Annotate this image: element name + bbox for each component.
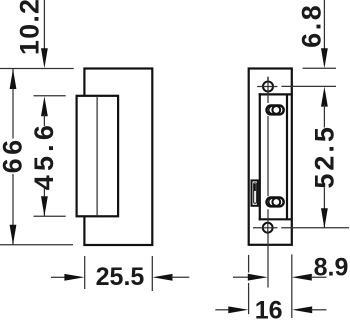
svg-text:6.8: 6.8 — [297, 3, 327, 48]
svg-text:16: 16 — [255, 296, 283, 321]
dimension 66 line — [12, 69, 14, 139]
bottom hole vertical cross — [267, 222, 269, 235]
extension line top (plate top, y=68.5) — [0, 68, 74, 70]
dimension 45.6 line — [43, 114, 45, 126]
dimension 8.9 left arrow — [233, 276, 248, 278]
svg-text:10.2: 10.2 — [15, 0, 45, 55]
vertical centerline through holes — [267, 77, 269, 103]
dimension 6.8 leader line — [323, 0, 325, 50]
dimension 25.5 left arrow — [51, 276, 66, 278]
dimension 16/8.9 left extension line (x=248.6) — [248, 255, 250, 273]
top obround roller circle — [272, 106, 280, 114]
svg-text:45.6: 45.6 — [29, 121, 59, 190]
dimension 52.5 line — [323, 105, 325, 128]
adjustment tab slot — [254, 183, 257, 203]
bottom hole horizontal cross — [253, 227, 278, 229]
extension line plate bottom (y=244.8) — [0, 244, 73, 246]
dimension 16 left arrow — [215, 309, 228, 311]
left view pocket divider line — [96, 96, 98, 217]
svg-text:52.5: 52.5 — [309, 124, 339, 189]
bottom screw hole — [263, 223, 273, 233]
dimension 25.5 right arrow — [153, 274, 173, 281]
dimension 10.2 leader line — [43, 0, 45, 50]
right view outer faceplate — [249, 69, 292, 245]
dimension 45.6 top arrow (also 10.2 counter-arrow) — [41, 96, 48, 116]
bottom obround roller circle — [272, 198, 280, 206]
right view recessed box left edge — [259, 93, 261, 220]
adjustment tab on left edge — [252, 180, 258, 205]
extension line top hole center (y=86.4) — [281, 85, 336, 87]
svg-text:66: 66 — [0, 136, 28, 173]
adjustment tab mark — [254, 184, 256, 191]
svg-text:8.9: 8.9 — [314, 253, 349, 281]
extension line pocket bottom (y=216.3) — [34, 215, 66, 217]
left view outer plate — [84, 69, 152, 246]
bottom obround (roller slot) — [267, 198, 284, 207]
svg-text:25.5: 25.5 — [96, 263, 145, 291]
top hole horizontal cross — [257, 86, 277, 88]
dimension 52.5 top arrow — [321, 87, 328, 107]
extension line right of plate top (y=68.3) — [303, 67, 337, 69]
bottom obround left crescent — [269, 198, 277, 206]
left view latch pocket (inner rect) — [77, 96, 119, 217]
dimension 25.5 extension lines — [84, 256, 86, 289]
extension line pocket top (y=95.8) — [34, 95, 66, 97]
dimension 52.5 bottom arrow — [321, 208, 328, 228]
dimension 10.2 down arrow — [41, 48, 48, 68]
extension line bottom hole center (y=227.8) — [281, 227, 349, 229]
dimension 6.8 down arrow — [321, 48, 328, 68]
right view recessed box right edge — [286, 94, 288, 219]
right view recessed box top edge — [259, 93, 292, 95]
dimension 66 top arrow — [10, 69, 17, 89]
top obround (roller slot) — [267, 106, 284, 115]
dimension right extension line (x=291.8) — [291, 254, 293, 318]
dimension 8.9 right arrow — [292, 274, 312, 281]
dimension 16 right arrow — [292, 306, 312, 313]
dimension 45.6 bottom arrow — [41, 196, 48, 216]
right view recessed box bottom edge — [259, 218, 292, 220]
top screw hole — [263, 82, 273, 92]
dimension 66 bottom arrow — [10, 225, 17, 245]
top hole vertical cross — [267, 77, 269, 95]
top obround left crescent — [269, 106, 277, 114]
